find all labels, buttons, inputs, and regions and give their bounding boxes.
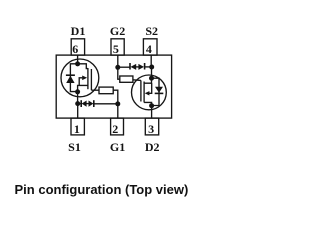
- wire ESD diode pair D4 to G1 node: [94, 103, 118, 105]
- pin 3 box: [145, 118, 158, 135]
- svg-text:4: 4: [146, 42, 152, 56]
- ESD diode D4b cathode bar: [93, 100, 95, 107]
- svg-text:Pin configuration (Top view): Pin configuration (Top view): [15, 182, 189, 197]
- ESD diode D4a triangle (pointing left): [82, 101, 87, 107]
- wire pin2 stub from G1 node: [117, 104, 119, 118]
- svg-text:G1: G1: [110, 140, 125, 154]
- transistor Q2 channel arrow (pointing left): [145, 91, 150, 95]
- ESD diode D3b triangle (pointing right): [138, 64, 144, 70]
- transistor Q2 circle: [132, 75, 167, 110]
- transistor Q1 gate bar: [90, 69, 92, 90]
- wire G2 node to ESD diode pair D3: [118, 66, 130, 68]
- ESD diode D3a triangle (pointing left): [131, 64, 137, 70]
- svg-text:6: 6: [72, 42, 78, 56]
- wire S1 node to ESD diode pair D4: [78, 103, 82, 105]
- pin 6 box: [71, 39, 84, 55]
- transistor Q2 drain link: [144, 102, 152, 105]
- transistor Q1 channel arrow (pointing right): [82, 76, 87, 81]
- node S2 junction: [149, 65, 154, 70]
- wire ESD diode pair D4 middle link: [86, 103, 88, 105]
- svg-text:3: 3: [148, 122, 154, 136]
- node M1 source: [75, 89, 80, 94]
- transistor Q2 body-diode cathode bar: [155, 92, 164, 94]
- wire M1 source node to S1 diode node: [77, 92, 79, 104]
- svg-text:5: 5: [113, 42, 119, 56]
- wire pin5 stub to G2 node: [117, 55, 119, 67]
- transistor Q1 drain link: [78, 64, 88, 69]
- transistor Q1 source link: [78, 85, 88, 91]
- ESD diode D3a cathode bar: [129, 63, 131, 70]
- wire S2 node to M2 source node: [151, 67, 153, 78]
- ESD diode D4a cathode bar: [80, 100, 82, 107]
- package body outline: [56, 55, 171, 118]
- resistor R2: [120, 76, 133, 82]
- transistor Q1 body-diode branch wire: [70, 64, 77, 92]
- wire ESD diode pair D3 middle link: [136, 66, 139, 68]
- node G1 junction: [115, 101, 120, 106]
- transistor Q2 body stub: [148, 83, 151, 93]
- ESD diode D3b cathode bar: [144, 63, 146, 70]
- node M2 drain: [149, 103, 154, 108]
- wire pin6 stub to M1 drain node: [77, 55, 79, 64]
- transistor Q1 gate lead to resistor R1: [91, 89, 99, 91]
- transistor Q2 body-diode triangle (pointing down): [155, 87, 163, 93]
- transistor Q1 channel bar: [87, 68, 89, 89]
- wire pin4 stub to S2 node: [150, 55, 152, 67]
- pin 1 box: [71, 118, 84, 135]
- svg-text:G2: G2: [110, 24, 125, 38]
- svg-text:D2: D2: [145, 140, 160, 154]
- node M2 source: [149, 76, 154, 81]
- svg-text:2: 2: [112, 122, 118, 136]
- transistor Q1 body-diode cathode bar: [66, 74, 75, 76]
- svg-text:1: 1: [74, 122, 80, 136]
- pin 2 box: [111, 118, 124, 135]
- transistor Q2 gate bar: [140, 80, 142, 101]
- wire R2 to G2 node: [118, 67, 120, 79]
- node G2 junction: [115, 65, 120, 70]
- wire pin3 stub from M2 drain node: [151, 106, 153, 118]
- transistor Q2 gate lead to resistor R2: [133, 79, 141, 82]
- transistor Q2 body-diode branch wire: [152, 78, 160, 105]
- transistor Q1 body-diode triangle (pointing up): [66, 76, 74, 83]
- pin 4 box: [143, 39, 157, 55]
- transistor Q1 body stub: [79, 78, 82, 86]
- wire R1 to G1 node: [113, 90, 118, 104]
- transistor Q2 channel bar: [143, 82, 145, 103]
- node S1 diode junction: [75, 101, 80, 106]
- svg-text:D1: D1: [71, 24, 86, 38]
- ESD diode D4b triangle (pointing right): [89, 101, 94, 107]
- pin 5 box: [111, 39, 124, 55]
- wire ESD diode pair D3 to S2 node: [145, 66, 152, 68]
- svg-text:S1: S1: [68, 140, 81, 154]
- transistor Q2 source link: [144, 78, 151, 83]
- transistor Q1 circle: [61, 59, 99, 97]
- wire pin1 stub from S1 diode node: [77, 104, 79, 118]
- svg-text:S2: S2: [145, 24, 158, 38]
- resistor R1: [99, 87, 113, 94]
- node M1 drain (pin6): [75, 61, 80, 66]
